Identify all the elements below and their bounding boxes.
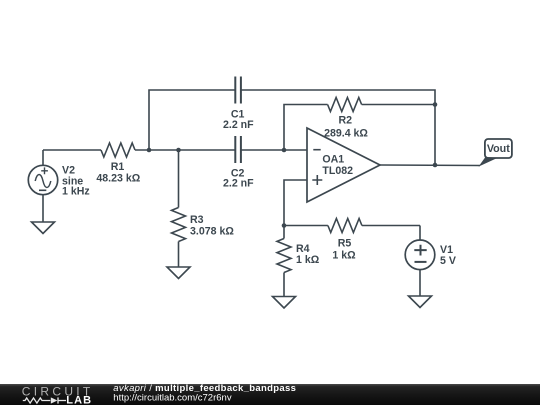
svg-text:48.23 kΩ: 48.23 kΩ (96, 173, 140, 185)
svg-text:Vout: Vout (487, 143, 510, 155)
svg-text:1 kΩ: 1 kΩ (296, 254, 320, 266)
svg-text:LAB: LAB (66, 395, 92, 405)
svg-text:5 V: 5 V (440, 255, 456, 267)
svg-text:2.2 nF: 2.2 nF (223, 178, 254, 190)
svg-text:1 kΩ: 1 kΩ (332, 249, 356, 261)
svg-text:R1: R1 (111, 161, 125, 173)
svg-text:R3: R3 (190, 214, 204, 226)
svg-text:OA1: OA1 (322, 154, 344, 166)
svg-text:R5: R5 (338, 237, 352, 249)
svg-text:TL082: TL082 (322, 165, 353, 177)
svg-text:http://circuitlab.com/c72r6nv: http://circuitlab.com/c72r6nv (113, 393, 232, 404)
svg-text:1 kHz: 1 kHz (62, 186, 90, 198)
svg-text:R2: R2 (339, 115, 353, 127)
svg-text:2.2 nF: 2.2 nF (223, 119, 254, 131)
svg-text:V2: V2 (62, 164, 75, 176)
svg-text:3.078 kΩ: 3.078 kΩ (190, 226, 234, 238)
svg-text:289.4 kΩ: 289.4 kΩ (324, 127, 368, 139)
